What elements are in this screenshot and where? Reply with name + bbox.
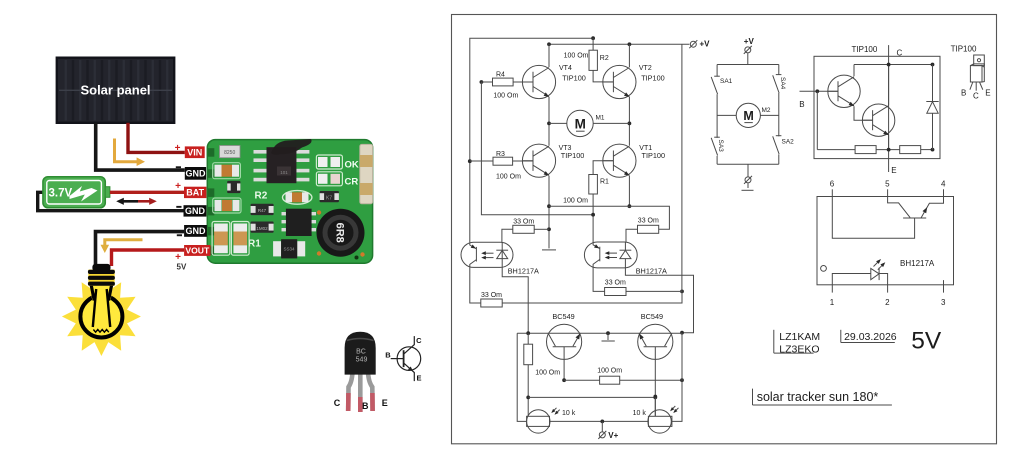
svg-text:SS34: SS34 xyxy=(283,247,295,252)
svg-text:5: 5 xyxy=(885,180,890,189)
svg-text:VT4: VT4 xyxy=(559,65,572,72)
svg-text:100 Om: 100 Om xyxy=(535,370,560,377)
svg-text:TIP100: TIP100 xyxy=(852,45,878,54)
svg-text:TIP100: TIP100 xyxy=(562,74,586,83)
svg-text:GND: GND xyxy=(185,169,206,179)
svg-text:3.7V: 3.7V xyxy=(49,188,73,200)
svg-text:K7: K7 xyxy=(326,196,332,202)
svg-text:+: + xyxy=(175,143,181,154)
svg-text:GND: GND xyxy=(186,226,207,236)
svg-text:BAT: BAT xyxy=(186,188,204,198)
svg-text:101: 101 xyxy=(280,170,288,175)
svg-text:M1: M1 xyxy=(596,115,605,122)
svg-text:100 Om: 100 Om xyxy=(496,174,521,181)
svg-text:6: 6 xyxy=(830,180,835,189)
svg-text:+: + xyxy=(175,181,181,192)
svg-text:100 Om: 100 Om xyxy=(563,197,588,204)
svg-text:BC549: BC549 xyxy=(552,312,574,321)
svg-text:SA4: SA4 xyxy=(779,77,786,90)
svg-text:E: E xyxy=(891,166,896,175)
svg-text:10 k: 10 k xyxy=(562,410,576,417)
svg-text:R4: R4 xyxy=(496,71,505,78)
svg-text:E: E xyxy=(985,89,990,98)
svg-text:V+: V+ xyxy=(608,431,618,440)
svg-text:SA1: SA1 xyxy=(720,78,733,85)
svg-text:CR: CR xyxy=(345,177,359,188)
svg-text:E: E xyxy=(382,398,388,408)
svg-text:Solar panel: Solar panel xyxy=(80,83,150,98)
svg-text:C: C xyxy=(416,336,422,345)
svg-text:1: 1 xyxy=(830,298,835,307)
svg-text:5V: 5V xyxy=(911,327,942,354)
svg-text:M: M xyxy=(743,109,753,123)
svg-text:BC: BC xyxy=(356,349,366,356)
svg-text:BC549: BC549 xyxy=(641,312,663,321)
svg-text:5V: 5V xyxy=(177,262,187,271)
svg-text:TIP100: TIP100 xyxy=(642,151,666,160)
svg-text:BH1217A: BH1217A xyxy=(636,267,667,276)
svg-text:M2: M2 xyxy=(762,107,771,114)
svg-text:TIP100: TIP100 xyxy=(951,44,977,53)
svg-text:100 Om: 100 Om xyxy=(597,368,622,375)
svg-text:C: C xyxy=(973,91,979,100)
svg-text:VOUT: VOUT xyxy=(185,246,210,256)
svg-text:SA2: SA2 xyxy=(782,139,795,146)
svg-text:BH1217A: BH1217A xyxy=(508,267,539,276)
svg-text:solar tracker sun 180*: solar tracker sun 180* xyxy=(757,390,879,404)
svg-text:B: B xyxy=(799,100,804,109)
svg-text:B: B xyxy=(385,350,391,359)
svg-text:R2: R2 xyxy=(600,55,609,62)
svg-text:TIP100: TIP100 xyxy=(641,74,665,83)
svg-text:R3: R3 xyxy=(496,151,505,158)
svg-text:4: 4 xyxy=(941,180,946,189)
svg-text:2: 2 xyxy=(885,298,890,307)
svg-text:33 Om: 33 Om xyxy=(638,217,659,224)
svg-text:33 Om: 33 Om xyxy=(513,218,534,225)
svg-text:R2: R2 xyxy=(255,191,268,202)
svg-text:E: E xyxy=(416,373,421,382)
svg-text:33 Om: 33 Om xyxy=(481,292,502,299)
svg-text:8250: 8250 xyxy=(224,150,235,156)
svg-text:VIN: VIN xyxy=(187,147,202,157)
svg-text:VT2: VT2 xyxy=(639,65,652,72)
svg-text:TIP100: TIP100 xyxy=(561,151,585,160)
svg-text:GND: GND xyxy=(185,206,206,216)
svg-text:BH1217A: BH1217A xyxy=(900,259,935,268)
svg-text:R1: R1 xyxy=(248,239,261,250)
svg-text:M: M xyxy=(575,117,586,132)
svg-text:OK: OK xyxy=(345,160,359,171)
svg-text:SA3: SA3 xyxy=(717,140,724,153)
svg-text:R1: R1 xyxy=(600,178,609,185)
svg-text:3: 3 xyxy=(941,298,946,307)
svg-text:29.03.2026: 29.03.2026 xyxy=(844,331,897,343)
svg-text:10 k: 10 k xyxy=(633,410,647,417)
svg-text:6R8: 6R8 xyxy=(334,223,346,243)
svg-text:R47: R47 xyxy=(258,208,267,213)
svg-text:33 Om: 33 Om xyxy=(605,280,626,287)
svg-text:B: B xyxy=(961,89,966,98)
svg-text:+V: +V xyxy=(744,37,755,46)
svg-text:+V: +V xyxy=(700,40,711,49)
svg-text:C: C xyxy=(334,398,341,408)
svg-text:C: C xyxy=(897,48,903,57)
svg-text:B: B xyxy=(362,401,369,411)
svg-text:549: 549 xyxy=(356,357,368,364)
svg-text:100 Om: 100 Om xyxy=(493,93,518,100)
svg-text:100 Om: 100 Om xyxy=(564,52,589,59)
svg-text:1M02: 1M02 xyxy=(256,226,268,231)
svg-text:LZ1KAM: LZ1KAM xyxy=(779,331,820,343)
